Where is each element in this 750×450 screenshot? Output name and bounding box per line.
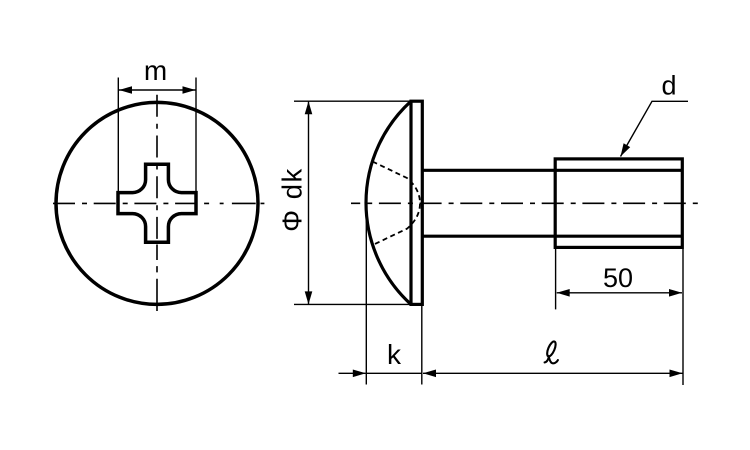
l arrowhead left [423,370,436,378]
k extension line (dome tangent) [365,205,367,385]
dk arrowhead up [305,101,313,114]
label l (script ell) [545,340,558,363]
k outside arrow tail [339,372,366,374]
50 arrowhead left [557,289,570,297]
50/l shared extension line right [682,249,684,385]
svg-text:m: m [144,55,167,86]
horizontal centerline of front view [49,202,213,204]
k outside arrowhead [353,370,366,378]
50 arrowhead right [669,289,682,297]
horizontal centerline right part [220,202,265,204]
phillips cross recess outline [118,164,196,242]
head bearing face rectangle [411,101,422,304]
shaft bottom line [422,235,682,238]
dk dimension line [308,101,310,304]
50 extension line left [555,249,557,309]
screw head front view: outer circle [56,102,258,304]
l extension line (head face) [421,306,423,385]
dk bottom extension line [294,303,410,305]
vertical centerline of front view [156,95,158,242]
d leader line [621,101,689,156]
svg-text:d: d [661,71,676,101]
m dimension extension line left [117,78,119,192]
main centerline of side view [351,202,700,204]
m arrowhead right [183,86,196,94]
svg-text:k: k [387,339,402,370]
50 dimension line [557,292,682,294]
m arrowhead left [119,86,132,94]
dk top extension line [294,100,410,102]
l arrowhead right [670,370,683,378]
m dimension extension line right [195,78,197,192]
m dimension line [119,89,196,91]
svg-text:50: 50 [603,263,633,293]
k dimension line [366,372,422,374]
vertical centerline lower part [156,245,158,312]
l dimension line [423,372,683,374]
d leader arrowhead [621,143,631,156]
dk arrowhead down [305,291,313,304]
shaft top line [422,169,682,172]
side view: head dome arc [366,101,411,304]
threaded portion outer rectangle [555,159,682,248]
hidden recess dashed profile [373,162,421,246]
svg-text:Φ dk: Φ dk [277,167,308,232]
